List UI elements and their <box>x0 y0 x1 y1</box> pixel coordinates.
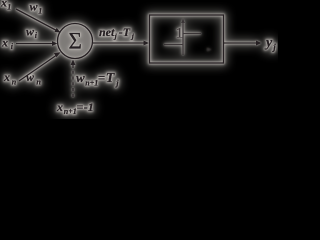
core layer <box>0 0 276 116</box>
glow layer tight <box>0 0 276 116</box>
glow layer mid <box>0 0 276 116</box>
glow layer wash <box>0 0 276 116</box>
